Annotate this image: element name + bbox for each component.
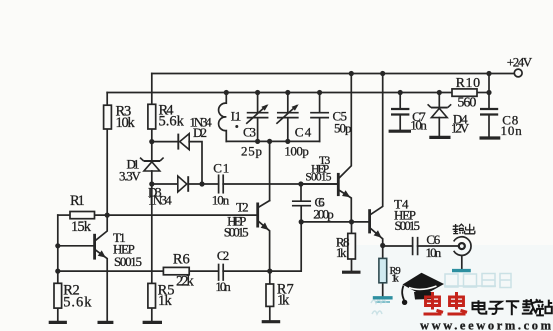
svg-text:1k: 1k bbox=[158, 293, 173, 309]
svg-text:10n: 10n bbox=[212, 193, 230, 208]
svg-text:+24V: +24V bbox=[507, 55, 533, 70]
svg-text:10n: 10n bbox=[215, 279, 231, 294]
svg-text:1k: 1k bbox=[336, 245, 347, 260]
svg-text:1N34: 1N34 bbox=[148, 193, 172, 208]
svg-text:S0015: S0015 bbox=[305, 172, 331, 184]
svg-text:5.6k: 5.6k bbox=[159, 114, 185, 130]
svg-text:3.3V: 3.3V bbox=[119, 169, 141, 184]
svg-text:15k: 15k bbox=[71, 219, 92, 235]
svg-text:R6: R6 bbox=[173, 252, 190, 268]
svg-text:10n: 10n bbox=[410, 118, 427, 133]
svg-text:R10: R10 bbox=[456, 76, 481, 91]
svg-text:1k: 1k bbox=[277, 293, 290, 309]
svg-text:C2: C2 bbox=[217, 248, 229, 263]
svg-text:5.6k: 5.6k bbox=[63, 295, 92, 311]
svg-text:C1: C1 bbox=[213, 161, 229, 176]
svg-text:C3: C3 bbox=[243, 125, 256, 140]
svg-text:560: 560 bbox=[457, 96, 476, 111]
svg-text:T2: T2 bbox=[236, 200, 249, 215]
svg-text:www.eeworm.com: www.eeworm.com bbox=[420, 319, 553, 331]
svg-text:100p: 100p bbox=[284, 144, 309, 159]
svg-text:50p: 50p bbox=[334, 121, 352, 136]
svg-text:S0015: S0015 bbox=[114, 254, 142, 269]
svg-text:10k: 10k bbox=[116, 115, 136, 131]
svg-text:22k: 22k bbox=[176, 274, 195, 290]
svg-text:10n: 10n bbox=[426, 245, 442, 260]
svg-text:R1: R1 bbox=[70, 193, 85, 209]
svg-text:12V: 12V bbox=[451, 121, 470, 136]
svg-text:25p: 25p bbox=[241, 144, 262, 159]
svg-text:S0015: S0015 bbox=[395, 218, 421, 233]
svg-text:D2: D2 bbox=[193, 125, 207, 140]
svg-text:1k: 1k bbox=[391, 274, 399, 285]
svg-text:10n: 10n bbox=[501, 123, 523, 138]
svg-text:C4: C4 bbox=[295, 125, 312, 140]
svg-text:L1: L1 bbox=[231, 109, 242, 124]
svg-text:200p: 200p bbox=[313, 207, 333, 222]
svg-text:S0015: S0015 bbox=[224, 225, 249, 240]
